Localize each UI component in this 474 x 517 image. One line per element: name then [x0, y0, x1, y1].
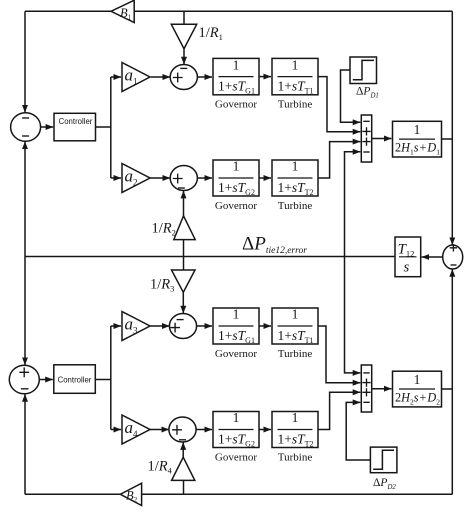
wire: Turbine4 output right, up, into area2 sum rect + (arrow)	[318, 392, 360, 429]
gain 1/R4 (triangle pointing up)	[172, 457, 195, 480]
gain B2 (triangle pointing left)	[120, 483, 141, 505]
value Governor4 fraction 1/(1+sTG2)	[218, 410, 255, 448]
svg-text:1: 1	[233, 159, 240, 174]
svg-text:Governor: Governor	[215, 99, 257, 111]
block Turbine 3 transfer function	[272, 308, 318, 344]
wire: right vertical down to bottom corner	[451, 389, 453, 494]
summing junction S1 (circle, plus minus)	[170, 65, 197, 90]
block inertia 1/(2H1s+D1)	[393, 121, 442, 157]
svg-text:2H2s + D2: 2H2s + D2	[395, 391, 440, 407]
wire: split into a2 (arrow)	[111, 177, 121, 179]
wire: stub from bottom line up to 1/R4 base	[183, 480, 185, 494]
sign plus left inside S2	[173, 174, 183, 184]
wire: B2 apex to left	[25, 493, 120, 495]
svg-text:1: 1	[233, 307, 240, 322]
svg-text:1: 1	[414, 372, 421, 387]
summing block area2 (narrow rect - + + -)	[361, 365, 371, 412]
sign plus row3 area1 sum rect	[362, 138, 370, 146]
svg-text:Turbine: Turbine	[278, 200, 313, 212]
svg-text:2H1s + D1: 2H1s + D1	[395, 141, 440, 157]
svg-text:ΔPD1: ΔPD1	[356, 86, 379, 100]
wire: sum S1 to Governor1 (arrow)	[197, 76, 212, 78]
block tie-line T12/s	[395, 237, 421, 277]
value inertia2 fraction 1/(2H2s+D2)	[395, 372, 440, 407]
wire: 1/R2 output up into sum S2 (arrow)	[183, 191, 185, 216]
summing junction S3 (circle, minus plus)	[169, 314, 196, 339]
value Turbine4 fraction 1/(1+sTT2)	[277, 410, 313, 448]
value Turbine3 fraction 1/(1+sTT1)	[277, 307, 313, 345]
gain a3 (triangle pointing right)	[122, 312, 150, 341]
value Turbine1 fraction 1/(1+sTT1)	[277, 57, 313, 95]
sign minus bottom inside tie sum	[451, 264, 457, 266]
svg-text:Turbine: Turbine	[278, 452, 313, 464]
wire: left vertical up into ACE2 bottom (arrow)	[24, 394, 26, 494]
wire: vertical joining 1/R2 base across tie line to 1/R3 base	[183, 240, 185, 270]
svg-text:s: s	[404, 260, 410, 276]
block Governor 3 transfer function	[213, 308, 259, 344]
wire: ACE1 output into Controller 1 (arrow)	[41, 126, 54, 128]
wire: sum S2 to Governor2 (arrow)	[197, 177, 212, 179]
svg-text:Controller: Controller	[59, 117, 93, 126]
wire: Turbine2 output right, up, into sum rect + (arrow)	[318, 142, 360, 178]
svg-text:a1: a1	[125, 66, 138, 87]
gain 1/R1 (triangle pointing down)	[171, 24, 196, 48]
wire: Controller1 output to branch split	[96, 126, 111, 128]
wire: split into a1 (arrow)	[111, 76, 121, 78]
svg-text:1: 1	[292, 410, 299, 425]
value Governor3 fraction 1/(1+sTG1)	[218, 307, 255, 345]
block inertia 1/(2H2s+D2)	[393, 371, 442, 407]
summing junction ACE1 (circle, minus minus)	[11, 113, 41, 142]
sign minus bottom inside S4	[179, 439, 186, 441]
wire: ACE2 output into Controller 2 (arrow)	[39, 379, 53, 381]
sign plus row2 area1 sum rect	[362, 127, 370, 135]
value Governor1 fraction 1/(1+sTG1)	[218, 57, 255, 95]
svg-text:a2: a2	[125, 167, 138, 188]
wire: 1/R1 apex down into sum S1 (arrow)	[183, 49, 185, 65]
sign plus row3 area2 sum rect	[362, 388, 370, 396]
summing block area1 (narrow rect - + + -)	[361, 115, 371, 162]
wire: area1 sum rect output into 1/(2H1s+D1) (arrow)	[371, 138, 391, 140]
sign minus top inside ACE1	[22, 117, 29, 119]
svg-text:Governor: Governor	[215, 452, 257, 464]
wire: Governor3 to Turbine3 (arrow)	[259, 325, 271, 327]
sign minus row4 area1 sum rect	[363, 151, 369, 153]
sign minus top inside S1	[180, 67, 187, 69]
wire: load disturbance dP_D1 into sum rect minus (arrow)	[341, 70, 361, 122]
sign plus top inside tie sum	[450, 244, 457, 251]
value Governor2 fraction 1/(1+sTG2)	[218, 159, 255, 197]
summing junction S4 (circle, plus minus)	[169, 417, 196, 442]
wire: left vertical down into ACE1 sum (arrow)	[24, 11, 26, 112]
wire: left vertical down-feed into ACE2 top (arrow)	[24, 257, 26, 365]
symbol step inside dP_D1	[353, 60, 374, 79]
gain B1 (triangle pointing left)	[111, 0, 134, 22]
wire: bottom feedback line from right corner to B2 base	[142, 493, 453, 495]
block Turbine 4 transfer function	[272, 412, 318, 448]
svg-text:1: 1	[292, 57, 299, 72]
svg-text:Controller: Controller	[58, 376, 92, 385]
svg-text:1/R4: 1/R4	[148, 459, 173, 476]
svg-text:a4: a4	[125, 418, 139, 439]
wire: 1/R4 apex up into sum S4 (arrow)	[182, 442, 184, 457]
wire: a3 apex to sum S3 (arrow)	[150, 325, 170, 327]
sign minus row4 area2 sum rect	[363, 401, 369, 403]
sign plus left inside S4	[172, 425, 182, 435]
block Governor 4 transfer function	[213, 412, 259, 448]
block Controller 2	[54, 365, 96, 394]
wire: stub from top line down to 1/R1 triangle	[183, 11, 185, 24]
wire: branch split vertical a3-a4	[110, 326, 112, 430]
block Turbine 2 transfer function	[272, 160, 318, 196]
sign minus bottom inside S2	[178, 187, 185, 189]
svg-text:Turbine: Turbine	[278, 348, 313, 360]
value T12/s fraction	[398, 242, 417, 276]
svg-text:Governor: Governor	[215, 348, 257, 360]
summing junction ACE2 (circle, plus minus)	[9, 365, 39, 394]
svg-text:ΔPtie12,error: ΔPtie12,error	[242, 234, 307, 257]
wire: top feedback line from right vertical to B1 base	[134, 10, 452, 12]
gain 1/R3 (triangle pointing down)	[172, 270, 196, 292]
wire: tie-line error line from left vertical to T12 block	[25, 256, 395, 258]
wire: left vertical up-feed into ACE1 bottom (arrow)	[24, 142, 26, 257]
svg-text:1: 1	[414, 122, 421, 137]
wire: a4 apex to sum S4 (arrow)	[150, 429, 169, 431]
wire: split into a4 (arrow)	[111, 429, 121, 431]
svg-text:a3: a3	[125, 315, 139, 336]
svg-text:1/R1: 1/R1	[199, 25, 223, 42]
symbol step inside dP_D2	[373, 450, 394, 469]
summing junction S2 (circle, plus minus)	[170, 166, 197, 191]
wire: a1 apex to sum S1 (arrow)	[151, 76, 170, 78]
block Controller 1	[54, 113, 96, 141]
wire: sum S4 to Governor4 (arrow)	[196, 429, 212, 431]
wire: tie-line error down-feed into area2 sum rect minus (arrow)	[345, 257, 361, 373]
wire: B1 apex to left vertical corner	[25, 10, 111, 12]
svg-text:1: 1	[292, 159, 299, 174]
svg-text:1/R3: 1/R3	[150, 277, 174, 294]
wire: right vertical from top corner down to tie sum (arrow)	[451, 11, 453, 245]
block Turbine 1 transfer function	[272, 58, 318, 94]
wire: Governor4 to Turbine4 (arrow)	[259, 429, 271, 431]
svg-text:Turbine: Turbine	[278, 99, 313, 111]
svg-text:1: 1	[292, 307, 299, 322]
gain a1 (triangle pointing right)	[122, 63, 150, 92]
sign plus top inside ACE2	[19, 367, 29, 377]
sign plus left inside S3	[170, 323, 180, 333]
wire: right vertical up into tie sum bottom (arrow)	[451, 269, 453, 389]
value Turbine2 fraction 1/(1+sTT2)	[277, 159, 313, 197]
wire: area2 sum rect output into 1/(2H2s+D2) (arrow)	[371, 388, 391, 390]
wire: 1/(2H2s+D2) output to right vertical	[442, 388, 453, 390]
sign minus top inside S3	[177, 319, 184, 321]
wire: load disturbance dP_D2 into area2 sum rect minus (arrow)	[346, 402, 370, 460]
wire: a2 apex to sum S2 (arrow)	[150, 177, 170, 179]
wire: sum S3 to Governor3 (arrow)	[197, 325, 212, 327]
sign minus row1 area1 sum rect	[363, 120, 369, 122]
summing junction tie (circle, plus minus)	[443, 245, 463, 269]
block load step dP_D2	[370, 447, 397, 473]
wire: branch split vertical a1-a2	[110, 77, 112, 178]
block load step dP_D1	[350, 57, 377, 84]
svg-text:1: 1	[233, 410, 240, 425]
value inertia1 fraction 1/(2H1s+D1)	[395, 122, 440, 157]
sign plus row2 area2 sum rect	[362, 379, 370, 387]
sign plus left inside S1	[173, 73, 183, 83]
wire: Governor2 to Turbine2 (arrow)	[259, 177, 271, 179]
svg-text:ΔPD2: ΔPD2	[373, 477, 396, 491]
wire: split into a3 (arrow)	[111, 325, 121, 327]
wire: Turbine1 output right, down, into sum rect + (arrow)	[318, 77, 360, 132]
gain a4 (triangle pointing right)	[122, 415, 150, 444]
wire: tie sum output left into T12/s block (arrow)	[422, 256, 443, 258]
wire: Controller2 output to branch split	[95, 379, 111, 381]
sign minus bottom inside ACE2	[21, 388, 29, 390]
sign minus row1 area2 sum rect	[363, 372, 369, 374]
block Governor 2 transfer function	[213, 160, 259, 196]
wire: Governor1 to Turbine1 (arrow)	[259, 76, 271, 78]
gain a2 (triangle pointing right)	[122, 164, 150, 193]
sign minus bottom inside ACE1	[22, 135, 29, 137]
svg-text:1/R2: 1/R2	[152, 221, 176, 238]
gain 1/R2 (triangle pointing up)	[174, 216, 195, 240]
svg-text:Governor: Governor	[215, 200, 257, 212]
block Governor 1 transfer function	[213, 58, 259, 94]
wire: 1/(2H1s+D1) output to right vertical	[442, 138, 453, 140]
wire: Turbine3 output right, down, into area2 sum rect + (arrow)	[318, 326, 360, 383]
wire: 1/R3 apex down into sum S3 (arrow)	[182, 292, 184, 313]
wire: tie-line error up-feed into area1 sum rect minus (arrow)	[345, 152, 361, 257]
svg-text:1: 1	[233, 57, 240, 72]
